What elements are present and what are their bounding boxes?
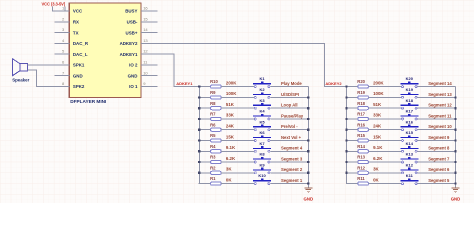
node junction K10/right bus — [307, 183, 309, 185]
svg-text:R12: R12 — [357, 165, 365, 170]
node junction K16/right bus — [454, 129, 456, 131]
svg-text:DAC_L: DAC_L — [73, 52, 88, 57]
wire row 3 from bus to resistor R18 — [347, 107, 358, 109]
pin 15 USB- (right) — [127, 16, 158, 24]
wire K9 to right bus, net Segment 2 — [270, 172, 308, 174]
node junction K9/right bus — [307, 172, 309, 174]
svg-text:K1: K1 — [260, 76, 266, 81]
wire K2 to right bus, net U/SD/SPI — [270, 96, 308, 98]
pushbutton switch K1 — [253, 76, 271, 87]
svg-text:K13: K13 — [406, 152, 414, 157]
svg-text:K5: K5 — [260, 119, 266, 124]
svg-text:GND: GND — [451, 196, 461, 201]
pushbutton switch K5 — [253, 119, 271, 130]
svg-text:Segment 13: Segment 13 — [428, 92, 452, 97]
node junction bus/R14 — [345, 150, 347, 152]
pushbutton switch K13 — [400, 152, 418, 163]
resistor R9 value 100K — [210, 90, 237, 99]
svg-text:0K: 0K — [373, 177, 379, 182]
wire row 10 from bus to resistor R11 — [347, 183, 358, 185]
svg-text:6.2K: 6.2K — [373, 156, 383, 161]
svg-text:200K: 200K — [373, 80, 384, 85]
pin 16 BUSY (right) — [125, 6, 157, 14]
svg-text:R3: R3 — [210, 155, 216, 160]
svg-text:12: 12 — [143, 49, 148, 54]
wire row 5 from bus to resistor R16 — [347, 129, 358, 131]
svg-text:Segment 2: Segment 2 — [281, 167, 303, 172]
pushbutton switch K15 — [400, 130, 418, 141]
svg-text:Segment 8: Segment 8 — [428, 146, 450, 151]
svg-text:VCC (3.3-5V): VCC (3.3-5V) — [42, 1, 66, 6]
node junction K19/right bus — [454, 96, 456, 98]
wire R10 to switch K1 — [221, 86, 254, 88]
svg-text:6.2K: 6.2K — [226, 156, 236, 161]
resistor R2 value 3K — [210, 165, 232, 174]
svg-text:51K: 51K — [373, 102, 382, 107]
resistor R1 value 0K — [210, 176, 232, 185]
node junction bus/R11 — [346, 183, 347, 184]
wire K16 to right bus, net Segment 10 — [418, 129, 456, 131]
wire speaker- to SPK2 pin 8 — [28, 70, 55, 87]
svg-text:R7: R7 — [210, 112, 216, 117]
svg-text:IO 1: IO 1 — [129, 84, 138, 89]
svg-text:9.1K: 9.1K — [226, 145, 236, 150]
node junction bus/R1 — [199, 183, 200, 184]
svg-text:200K: 200K — [226, 80, 237, 85]
node junction bus/R16 — [345, 129, 347, 131]
pushbutton switch K14 — [400, 141, 418, 152]
node junction K7/right bus — [307, 150, 309, 152]
svg-text:GND: GND — [73, 73, 83, 78]
wire R14 to switch K14 — [368, 150, 401, 152]
wire row 6 from bus to resistor R15 — [347, 140, 358, 142]
wire VCC to pin 1 — [53, 10, 70, 12]
wire R16 to switch K16 — [368, 129, 401, 131]
pin 13 ADKEY2 (right) — [120, 38, 158, 46]
svg-text:Speaker: Speaker — [12, 77, 29, 82]
node junction bus/R8 — [198, 107, 200, 109]
resistor R4 value 9.1K — [210, 144, 236, 153]
wire K3 to right bus, net Loop All — [270, 107, 308, 109]
node junction bus/R20 — [345, 86, 347, 88]
svg-text:Pause/Play: Pause/Play — [281, 113, 304, 118]
wire row 2 from bus to resistor R9 — [199, 96, 210, 98]
power port bracket VCC — [53, 7, 65, 11]
svg-text:100K: 100K — [373, 91, 384, 96]
wire ADKEY1 from pin 12 down to ladder 1 — [157, 54, 199, 86]
wire row 10 from bus to resistor R1 — [199, 183, 210, 185]
resistor R7 value 33K — [210, 112, 235, 121]
svg-text:ADKEY1: ADKEY1 — [120, 52, 138, 57]
node junction K5/right bus — [307, 129, 309, 131]
wire row 4 from bus to resistor R17 — [347, 118, 358, 120]
svg-text:IO 2: IO 2 — [129, 63, 138, 68]
svg-text:15: 15 — [143, 16, 148, 21]
wire row 3 from bus to resistor R8 — [199, 107, 210, 109]
pin 2 RX (left) — [55, 16, 79, 24]
svg-text:K3: K3 — [260, 98, 266, 103]
node junction bus/R10 — [198, 86, 200, 88]
node junction bus/R6 — [198, 129, 200, 131]
node junction bus/R3 — [198, 161, 200, 163]
resistor R8 value 51K — [210, 101, 235, 110]
pushbutton switch K11 — [400, 173, 418, 184]
wire R6 to switch K5 — [221, 129, 254, 131]
svg-text:Pre/Vol -: Pre/Vol - — [281, 124, 298, 129]
resistor R15 value 15K — [357, 133, 382, 142]
wire K7 to right bus, net Segment 4 — [270, 150, 308, 152]
wire K17 to right bus, net Segment 11 — [418, 118, 456, 120]
svg-text:K18: K18 — [406, 98, 414, 103]
pin 5 DAC_L (left) — [55, 49, 88, 57]
svg-text:R9: R9 — [210, 90, 216, 95]
wire row 7 from bus to resistor R4 — [199, 150, 210, 152]
pushbutton switch K16 — [400, 119, 418, 130]
svg-text:K10: K10 — [258, 173, 266, 178]
wire K15 to right bus, net Segment 9 — [418, 140, 456, 142]
svg-text:Segment 12: Segment 12 — [428, 103, 452, 108]
node junction K2/right bus — [307, 96, 309, 98]
svg-text:R14: R14 — [357, 144, 365, 149]
pushbutton switch K4 — [253, 109, 271, 120]
ground power-gnd symbol under ADKEY2 ladder — [452, 188, 460, 193]
svg-text:GND: GND — [128, 73, 138, 78]
svg-text:R19: R19 — [357, 90, 365, 95]
resistor R10 value 200K — [210, 79, 237, 88]
node junction bus/R19 — [345, 96, 347, 98]
svg-text:Loop All: Loop All — [281, 103, 298, 108]
svg-text:R11: R11 — [357, 176, 365, 181]
wire R1 to switch K10 — [221, 183, 254, 185]
svg-text:DAC_R: DAC_R — [73, 41, 89, 46]
svg-text:TX: TX — [73, 30, 79, 35]
svg-text:Segment 1: Segment 1 — [281, 178, 303, 183]
node junction K18/right bus — [454, 107, 456, 109]
node junction K17/right bus — [454, 118, 456, 120]
node junction bus/R5 — [198, 139, 200, 141]
svg-text:K12: K12 — [406, 162, 414, 167]
svg-text:K4: K4 — [260, 109, 266, 114]
node junction K13/right bus — [454, 161, 456, 163]
svg-text:51K: 51K — [226, 102, 235, 107]
node junction K4/right bus — [307, 118, 309, 120]
wire K8 to right bus, net Segment 3 — [270, 161, 308, 163]
svg-text:14: 14 — [143, 27, 148, 32]
wire ADKEY1 ladder left bus — [198, 87, 200, 184]
pin 3 TX (left) — [55, 27, 79, 35]
svg-text:R17: R17 — [357, 112, 365, 117]
wire R12 to switch K12 — [368, 172, 401, 174]
wire R15 to switch K15 — [368, 140, 401, 142]
wire K11 to right bus, net Segment 5 — [418, 183, 456, 185]
wire R9 to switch K2 — [221, 96, 254, 98]
wire K6 to right bus, net Next Vol + — [270, 140, 308, 142]
wire row 2 from bus to resistor R19 — [347, 96, 358, 98]
svg-text:3K: 3K — [226, 167, 232, 172]
svg-text:RX: RX — [73, 19, 79, 24]
wire K1 to right bus, net Play Mode — [270, 86, 308, 88]
pushbutton switch K8 — [253, 152, 271, 163]
node junction bus/R18 — [345, 107, 347, 109]
svg-text:16: 16 — [143, 6, 148, 11]
wire R18 to switch K18 — [368, 107, 401, 109]
pin 8 SPK2 (left) — [55, 81, 85, 89]
svg-text:Segment 10: Segment 10 — [428, 124, 452, 129]
svg-text:R5: R5 — [210, 133, 216, 138]
wire R2 to switch K9 — [221, 172, 254, 174]
svg-text:Segment 14: Segment 14 — [428, 81, 452, 86]
svg-text:24K: 24K — [226, 124, 235, 129]
pin 6 SPK1 (left) — [55, 60, 85, 68]
wire row 6 from bus to resistor R5 — [199, 140, 210, 142]
svg-text:Segment 3: Segment 3 — [281, 156, 303, 161]
svg-text:100K: 100K — [226, 91, 237, 96]
svg-text:K11: K11 — [406, 173, 414, 178]
resistor R14 value 9.1K — [357, 144, 383, 153]
wire R7 to switch K4 — [221, 118, 254, 120]
pin 10 GND (right) — [128, 70, 158, 78]
node junction bus/R4 — [198, 150, 200, 152]
wire R13 to switch K13 — [368, 161, 401, 163]
svg-text:Segment 7: Segment 7 — [428, 156, 450, 161]
svg-text:GND: GND — [304, 196, 314, 201]
svg-text:9.1K: 9.1K — [373, 145, 383, 150]
wire K12 to right bus, net Segment 6 — [418, 172, 456, 174]
svg-text:33K: 33K — [373, 113, 382, 118]
svg-text:K16: K16 — [406, 119, 414, 124]
svg-text:33K: 33K — [226, 113, 235, 118]
svg-text:Segment 11: Segment 11 — [428, 113, 452, 118]
wire K18 to right bus, net Segment 12 — [418, 107, 456, 109]
svg-text:K8: K8 — [260, 152, 266, 157]
svg-text:K9: K9 — [260, 162, 266, 167]
wire R20 to switch K20 — [368, 86, 401, 88]
wire R5 to switch K6 — [221, 140, 254, 142]
pushbutton switch K3 — [253, 98, 271, 109]
svg-text:R10: R10 — [210, 79, 218, 84]
svg-text:R4: R4 — [210, 144, 216, 149]
svg-text:R16: R16 — [357, 122, 365, 127]
node junction K8/right bus — [307, 161, 309, 163]
svg-text:10: 10 — [143, 70, 148, 75]
svg-text:Segment 5: Segment 5 — [428, 178, 450, 183]
wire K4 to right bus, net Pause/Play — [270, 118, 308, 120]
pushbutton switch K18 — [400, 98, 418, 109]
svg-text:K6: K6 — [260, 130, 266, 135]
svg-text:USB+: USB+ — [126, 30, 138, 35]
svg-text:ADKEY2: ADKEY2 — [325, 81, 342, 86]
wire row 8 from bus to resistor R13 — [347, 161, 358, 163]
node junction bus/R2 — [198, 172, 200, 174]
svg-text:15K: 15K — [373, 134, 382, 139]
svg-text:0K: 0K — [226, 177, 232, 182]
svg-text:K19: K19 — [406, 87, 414, 92]
pin 4 DAC_R (left) — [55, 38, 89, 46]
svg-text:U/SD/SPI: U/SD/SPI — [281, 92, 299, 97]
node junction K3/right bus — [307, 107, 309, 109]
pin 1 VCC (left) — [55, 6, 83, 14]
node junction K14/right bus — [454, 150, 456, 152]
resistor R5 value 15K — [210, 133, 235, 142]
svg-text:R20: R20 — [357, 79, 365, 84]
pushbutton switch K6 — [253, 130, 271, 141]
wire row 9 from bus to resistor R2 — [199, 172, 210, 174]
speaker LS1 symbol — [13, 59, 28, 76]
svg-text:USB-: USB- — [127, 19, 138, 24]
wire ADKEY2 from pin 13 across and down to ladder 2 — [157, 43, 346, 86]
resistor R6 value 24K — [210, 122, 235, 131]
svg-text:ADKEY1: ADKEY1 — [176, 81, 193, 86]
resistor R17 value 33K — [357, 112, 382, 121]
wire ADKEY2 feed into ladder row 1 — [347, 86, 358, 88]
wire K13 to right bus, net Segment 7 — [418, 161, 456, 163]
svg-text:Play Mode: Play Mode — [281, 81, 302, 86]
node junction bus/R13 — [345, 161, 347, 163]
svg-text:R2: R2 — [210, 165, 216, 170]
wire R3 to switch K8 — [221, 161, 254, 163]
pushbutton switch K2 — [253, 87, 271, 98]
wire R17 to switch K17 — [368, 118, 401, 120]
pin 14 USB+ (right) — [126, 27, 158, 35]
wire ADKEY2 ladder left bus — [346, 87, 348, 184]
svg-text:DFPLAYER MINI: DFPLAYER MINI — [70, 99, 106, 104]
svg-text:R1: R1 — [210, 176, 216, 181]
wire row 5 from bus to resistor R6 — [199, 129, 210, 131]
wire K14 to right bus, net Segment 8 — [418, 150, 456, 152]
svg-text:3K: 3K — [373, 167, 379, 172]
svg-text:Next Vol +: Next Vol + — [281, 135, 302, 140]
pin 7 GND (left) — [55, 70, 83, 78]
wire row 7 from bus to resistor R14 — [347, 150, 358, 152]
wire row 4 from bus to resistor R7 — [199, 118, 210, 120]
node junction K6/right bus — [307, 139, 309, 141]
pushbutton switch K7 — [253, 141, 271, 152]
node junction bus/R15 — [345, 139, 347, 141]
resistor R20 value 200K — [357, 79, 384, 88]
svg-text:K20: K20 — [406, 76, 414, 81]
node junction bus/R12 — [345, 172, 347, 174]
svg-text:Segment 9: Segment 9 — [428, 135, 450, 140]
pushbutton switch K20 — [400, 76, 418, 87]
wire ADKEY2 ladder right bus to ground — [455, 87, 457, 188]
svg-text:K17: K17 — [406, 109, 414, 114]
node junction K12/right bus — [454, 172, 456, 174]
svg-text:BUSY: BUSY — [125, 9, 137, 14]
resistor R11 value 0K — [357, 176, 379, 185]
pin 12 ADKEY1 (right) — [120, 49, 158, 57]
svg-text:K7: K7 — [260, 141, 266, 146]
pushbutton switch K12 — [400, 162, 418, 173]
node junction bus/R17 — [345, 118, 347, 120]
wire K10 to right bus, net Segment 1 — [270, 183, 308, 185]
svg-text:15K: 15K — [226, 134, 235, 139]
wire ADKEY1 feed into ladder row 1 — [199, 86, 210, 88]
resistor R3 value 6.2K — [210, 155, 236, 164]
wire K19 to right bus, net Segment 13 — [418, 96, 456, 98]
svg-text:R8: R8 — [210, 101, 216, 106]
svg-text:VCC: VCC — [73, 9, 83, 14]
wire row 8 from bus to resistor R3 — [199, 161, 210, 163]
wire R19 to switch K19 — [368, 96, 401, 98]
svg-text:Segment 4: Segment 4 — [281, 146, 303, 151]
svg-text:R18: R18 — [357, 101, 365, 106]
ground power-gnd symbol under ADKEY1 ladder — [304, 188, 312, 193]
pin 11 IO 2 (right) — [129, 60, 157, 68]
svg-text:24K: 24K — [373, 124, 382, 129]
wire speaker+ to SPK1 pin 6 — [28, 64, 55, 66]
svg-text:13: 13 — [143, 38, 148, 43]
resistor R16 value 24K — [357, 122, 382, 131]
svg-text:K15: K15 — [406, 130, 414, 135]
resistor R18 value 51K — [357, 101, 382, 110]
svg-text:K2: K2 — [260, 87, 266, 92]
pin 9 IO 1 (right) — [129, 81, 157, 89]
svg-text:Segment 6: Segment 6 — [428, 167, 450, 172]
wire K5 to right bus, net Pre/Vol - — [270, 129, 308, 131]
node junction bus/R7 — [198, 118, 200, 120]
svg-text:SPK2: SPK2 — [73, 84, 85, 89]
wire ADKEY1 ladder right bus to ground — [307, 87, 309, 188]
resistor R19 value 100K — [357, 90, 384, 99]
resistor R12 value 3K — [357, 165, 379, 174]
resistor R13 value 6.2K — [357, 155, 383, 164]
node junction K11/right bus — [454, 183, 456, 185]
pushbutton switch K19 — [400, 87, 418, 98]
svg-text:SPK1: SPK1 — [73, 63, 85, 68]
wire R4 to switch K7 — [221, 150, 254, 152]
pushbutton switch K10 — [253, 173, 271, 184]
wire row 9 from bus to resistor R12 — [347, 172, 358, 174]
svg-text:R13: R13 — [357, 155, 365, 160]
svg-text:ADKEY2: ADKEY2 — [120, 41, 138, 46]
pushbutton switch K9 — [253, 162, 271, 173]
svg-text:K14: K14 — [406, 141, 414, 146]
op IC U1 DFPLAYER MINI body — [69, 3, 141, 97]
wire R8 to switch K3 — [221, 107, 254, 109]
node junction K15/right bus — [454, 139, 456, 141]
pushbutton switch K17 — [400, 109, 418, 120]
svg-text:R6: R6 — [210, 122, 216, 127]
node junction bus/R9 — [198, 96, 200, 98]
wire K20 to right bus, net Segment 14 — [418, 86, 456, 88]
svg-text:R15: R15 — [357, 133, 365, 138]
wire R11 to switch K11 — [368, 183, 401, 185]
